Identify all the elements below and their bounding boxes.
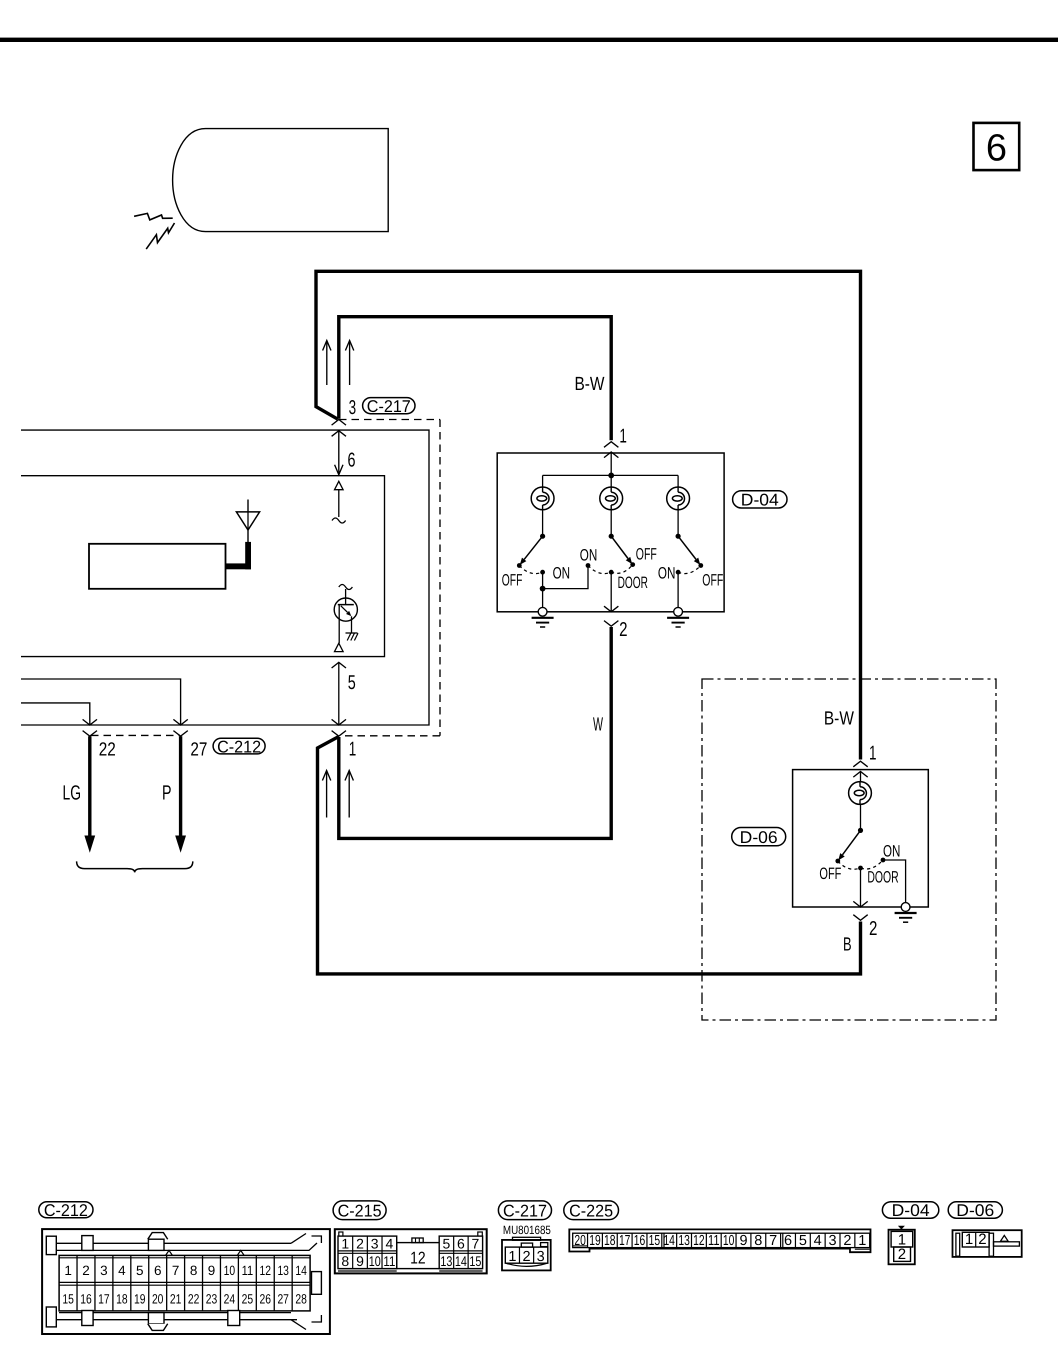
D-06 connector body [953,1230,1022,1257]
svg-text:C-225: C-225 [569,1201,613,1220]
svg-text:C-212: C-212 [217,737,261,756]
svg-text:C-217: C-217 [503,1201,547,1220]
svg-text:12: 12 [410,1248,426,1267]
antenna [247,500,249,513]
svg-text:3: 3 [349,397,357,419]
svg-text:27: 27 [190,739,207,760]
svg-text:D-06: D-06 [956,1201,994,1220]
svg-text:3: 3 [537,1249,545,1265]
svg-text:2: 2 [82,1263,90,1278]
svg-text:9: 9 [356,1253,364,1269]
svg-text:8: 8 [190,1263,198,1278]
svg-text:2: 2 [619,619,627,641]
svg-text:15: 15 [62,1292,74,1307]
svg-text:7: 7 [769,1233,777,1249]
svg-text:9: 9 [739,1233,747,1249]
svg-text:21: 21 [170,1292,182,1307]
svg-text:20: 20 [152,1292,164,1307]
C-225 pinout label [564,1201,619,1220]
svg-text:7: 7 [472,1235,480,1251]
node: C-217 pin3 internal line with arrow 6 [332,420,346,426]
svg-text:OFF: OFF [502,572,523,590]
svg-text:1: 1 [858,1233,866,1249]
lamp left (D-04) [531,487,554,510]
C-212 bottom tabs [46,1307,56,1327]
transmitter signal zigzag upper [134,213,173,220]
switch left (D-04) [540,534,545,539]
svg-text:2: 2 [898,1246,906,1263]
svg-text:MU801685: MU801685 [503,1223,551,1237]
svg-text:2: 2 [869,918,877,940]
page top rule [0,38,1058,42]
C-212 pinout label [39,1202,93,1218]
svg-text:DOOR: DOOR [867,869,898,887]
svg-text:D-04: D-04 [741,491,779,510]
svg-text:8: 8 [341,1253,349,1269]
D-04 dome lamp box [497,453,724,612]
svg-text:22: 22 [99,739,116,760]
svg-text:15: 15 [649,1233,661,1249]
D-04 connector body [889,1230,915,1265]
svg-text:2: 2 [978,1231,986,1248]
wire B-W trunk (C-217 pin3 to D-06) [316,271,861,759]
C-217 pinout label [498,1201,551,1220]
svg-text:1: 1 [869,742,877,764]
C-217 connector body [502,1240,551,1271]
svg-text:26: 26 [260,1292,272,1307]
internal line triangle (bottom) [335,643,344,651]
svg-text:6: 6 [986,128,1007,170]
svg-text:OFF: OFF [636,546,657,564]
svg-text:OFF: OFF [702,572,723,590]
svg-text:16: 16 [634,1233,646,1249]
small slant ground [346,632,358,634]
svg-text:17: 17 [98,1292,110,1307]
D-06 luggage lamp box [793,770,929,907]
buzzer transistor (ECU internal) [339,585,353,590]
svg-text:D-04: D-04 [892,1201,930,1220]
svg-text:3: 3 [100,1263,108,1278]
svg-text:5: 5 [348,672,356,694]
svg-text:ON: ON [883,843,900,861]
svg-text:12: 12 [260,1263,272,1278]
switch middle (D-04) [609,534,614,539]
wire B (D-06 pin2 to C-217 pin1) [318,737,861,974]
D-04 label [733,491,787,508]
svg-text:12: 12 [693,1233,705,1249]
svg-text:2: 2 [522,1249,530,1265]
wire P (to other page) [179,736,182,836]
svg-text:24: 24 [224,1292,236,1307]
D-04 internal bus [543,474,679,476]
svg-text:11: 11 [708,1233,720,1249]
svg-text:11: 11 [383,1253,395,1269]
svg-text:ON: ON [580,547,598,565]
ground (D-06) [901,903,910,912]
C-212 connector body [42,1229,330,1334]
svg-text:14: 14 [663,1233,675,1249]
svg-text:7: 7 [172,1263,180,1278]
svg-text:3: 3 [829,1233,837,1249]
ground right (D-04) [674,607,683,616]
svg-text:6: 6 [457,1235,465,1251]
svg-text:11: 11 [242,1263,254,1278]
ETACS ECU outer box [21,430,429,725]
svg-text:2: 2 [356,1235,364,1251]
connector C-217 dashed boundary [339,419,440,421]
svg-text:3: 3 [371,1235,379,1251]
svg-text:B-W: B-W [575,374,605,395]
svg-text:23: 23 [206,1292,218,1307]
C-212 pin grid [59,1255,310,1311]
wire W (D-04 pin2 to C-217 pin1) [339,627,611,838]
svg-text:13: 13 [277,1263,289,1278]
internal line triangle + break tilde (top) [335,481,344,489]
svg-text:15: 15 [469,1253,481,1269]
svg-text:22: 22 [188,1292,200,1307]
ECU pin 22 wire [21,703,90,725]
D-06 pin1 entry chevrons [853,761,867,767]
svg-text:C-217: C-217 [367,397,411,416]
connector C-212 dashed segment [91,734,180,736]
C-215 connector body [335,1229,487,1273]
svg-text:1: 1 [64,1263,72,1278]
svg-text:9: 9 [208,1263,216,1278]
D-06 dash-dot boundary [702,679,996,1020]
svg-text:18: 18 [116,1292,128,1307]
svg-text:17: 17 [619,1233,631,1249]
svg-text:20: 20 [574,1233,586,1249]
svg-text:14: 14 [455,1253,467,1269]
svg-text:DOOR: DOOR [618,574,648,592]
svg-text:28: 28 [295,1292,307,1307]
svg-text:6: 6 [348,449,356,471]
transmitter signal zigzag lower [146,223,174,249]
svg-text:4: 4 [814,1233,822,1249]
svg-text:13: 13 [440,1253,452,1269]
svg-text:P: P [162,782,172,805]
C-212 top tabs [46,1236,56,1254]
flow arrows near C-217 top [326,341,328,386]
svg-text:5: 5 [799,1233,807,1249]
C-215 center cell 12 [397,1243,440,1269]
D-06 pin2 exit [860,868,862,907]
wire LG (to other page) [88,736,91,836]
svg-text:10: 10 [369,1253,381,1269]
keyless transmitter outline [173,129,389,232]
svg-text:C-212: C-212 [44,1201,88,1220]
svg-text:D-06: D-06 [740,828,778,847]
svg-text:W: W [593,715,603,736]
svg-text:14: 14 [295,1263,307,1278]
ECU pin 27 wire [21,679,181,725]
switch (D-06) [858,828,863,833]
radio unit box [89,544,226,589]
svg-text:25: 25 [242,1292,254,1307]
svg-text:18: 18 [604,1233,616,1249]
svg-text:19: 19 [589,1233,601,1249]
lamp middle (D-04) [600,487,623,510]
lamp right (D-04) [667,487,690,510]
svg-text:5: 5 [443,1235,451,1251]
svg-text:10: 10 [224,1263,236,1278]
svg-text:10: 10 [723,1233,735,1249]
svg-text:8: 8 [754,1233,762,1249]
D-04 pinout label [882,1202,938,1218]
svg-text:1: 1 [349,739,357,761]
svg-text:1: 1 [508,1249,516,1265]
svg-text:1: 1 [965,1231,973,1248]
D-06 label [732,828,786,846]
D-06 pinout label [948,1202,1002,1218]
ground left (D-04) [538,607,547,616]
svg-text:4: 4 [118,1263,126,1278]
svg-text:ON: ON [658,565,676,583]
svg-text:1: 1 [341,1235,349,1251]
svg-text:6: 6 [154,1263,162,1278]
svg-text:6: 6 [784,1233,792,1249]
svg-text:1: 1 [619,426,627,448]
flow arrows below C-217 pin1 [326,771,328,818]
D-04 pin1 entry chevrons [604,442,618,448]
switch right (D-04) [676,534,681,539]
svg-text:LG: LG [63,782,82,805]
svg-text:OFF: OFF [819,865,841,883]
svg-text:16: 16 [80,1292,92,1307]
svg-text:2: 2 [843,1233,851,1249]
svg-text:B: B [843,935,852,956]
svg-text:5: 5 [136,1263,144,1278]
page number box 6 [974,123,1020,170]
svg-text:C-215: C-215 [338,1201,382,1220]
svg-text:4: 4 [386,1235,394,1251]
brace under LG/P [77,861,193,872]
lamp (D-06) [849,782,872,805]
C-225 connector body [569,1229,870,1252]
D-04 pin2 exit chevrons [604,606,618,612]
svg-text:27: 27 [277,1292,289,1307]
ECU pin 5 line [332,662,346,668]
C-212 right latch [312,1272,322,1295]
svg-text:ON: ON [553,565,571,583]
C-215 pinout label [333,1201,386,1220]
C-212 label [213,738,265,754]
svg-text:B-W: B-W [824,709,854,730]
svg-text:19: 19 [134,1292,146,1307]
C-212 group notches [166,1250,173,1255]
svg-text:13: 13 [678,1233,690,1249]
wire B-W branch (to D-04 pin1) [339,317,611,441]
ECU inner unit box [21,476,385,657]
